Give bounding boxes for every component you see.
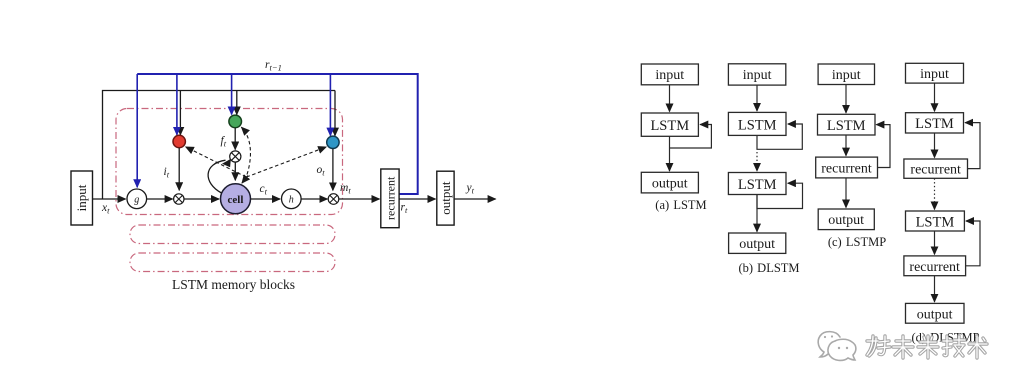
wire blue drop to input gate — [176, 74, 178, 135]
wire blue drop to forget gate — [231, 74, 233, 115]
(c) wire LSTM to recurrent — [845, 135, 847, 156]
forget multiplier — [230, 151, 241, 162]
svg-text:output: output — [828, 213, 864, 228]
wire blue drop to output gate — [329, 74, 331, 136]
svg-text:(b) DLSTM: (b) DLSTM — [738, 261, 799, 275]
(c) wire recurrent to output — [845, 178, 847, 208]
wire riser x_t (black vertical left) — [103, 91, 336, 200]
svg-text:xt: xt — [101, 202, 110, 216]
wire forget gate to forget multiplier — [234, 128, 236, 150]
svg-text:recurrent: recurrent — [909, 260, 960, 275]
(b) dotted wire LSTM1 to LSTM2 — [756, 152, 758, 171]
svg-text:mt: mt — [340, 182, 351, 196]
svg-text:cell: cell — [228, 194, 244, 206]
svg-text:(a) LSTM: (a) LSTM — [655, 198, 706, 212]
svg-text:LSTM: LSTM — [738, 117, 777, 133]
(c) input box — [818, 64, 874, 85]
(c) LSTM box — [818, 114, 876, 135]
svg-text:input: input — [74, 184, 89, 211]
svg-text:ot: ot — [317, 164, 326, 178]
watermark logo (chat bubbles) — [818, 332, 856, 361]
svg-text:input: input — [832, 68, 861, 83]
wire multiplier to recurrent — [339, 198, 380, 200]
svg-text:rt−1: rt−1 — [265, 59, 282, 73]
svg-text:recurrent: recurrent — [910, 163, 961, 178]
wire black drop to forget gate — [236, 91, 238, 115]
svg-text:ft: ft — [221, 135, 227, 149]
svg-text:rt: rt — [401, 202, 408, 216]
svg-text:input: input — [655, 68, 684, 83]
svg-text:(c) LSTMP: (c) LSTMP — [828, 235, 886, 249]
wire h to output multiplier — [301, 198, 327, 200]
peephole dashed curve to forget gate — [242, 127, 251, 174]
(b) output box — [729, 233, 786, 253]
(d) recurrent loop wire 1 — [965, 123, 980, 169]
(b) LSTM box 1 — [728, 112, 786, 135]
input box — [71, 171, 93, 225]
wire g to input-gate multiplier — [147, 198, 173, 200]
output box — [437, 171, 454, 225]
(b) recurrent loop wire 2 — [757, 183, 803, 208]
(b) recurrent loop wire 1 — [757, 124, 802, 149]
svg-text:input: input — [743, 68, 772, 83]
wire black drop to output gate — [334, 91, 336, 136]
wire cell self-loop arc to forget multiplier — [208, 160, 225, 193]
(d) LSTM box 2 — [906, 211, 965, 231]
output multiplier — [328, 194, 339, 205]
svg-text:h: h — [289, 195, 294, 206]
wire recurrent to output box — [399, 198, 435, 200]
peephole dashed to output gate — [247, 147, 327, 177]
svg-text:input: input — [920, 67, 949, 82]
peephole dashed to input gate — [186, 147, 246, 177]
svg-text:recurrent: recurrent — [821, 162, 872, 177]
wire cell to h — [251, 198, 281, 200]
svg-text:g: g — [134, 195, 139, 206]
(d) output box — [906, 303, 965, 323]
svg-text:LSTM: LSTM — [916, 214, 955, 230]
(c) recurrent loop wire — [876, 125, 890, 168]
multiplier (input gate) — [174, 194, 184, 204]
wire output gate to output multiplier — [332, 149, 334, 191]
(d) LSTM box 1 — [906, 113, 964, 133]
(a) wire LSTM to output — [669, 136, 671, 171]
wire blue recurrent r_t loop — [137, 74, 418, 194]
(d) input box — [906, 63, 964, 83]
(b) wire input to LSTM 1 — [756, 85, 758, 111]
svg-text:output: output — [917, 307, 953, 322]
(d) recurrent box 2 — [904, 256, 966, 276]
peephole dashed cell stub — [242, 176, 248, 184]
svg-text:yt: yt — [466, 182, 475, 196]
wire black drop to input gate — [179, 91, 181, 135]
(c) wire input to LSTM — [845, 85, 847, 113]
watermark text 好未来技术 — [867, 336, 987, 358]
(d) wire recurrent2 to output — [934, 276, 936, 302]
node g (input activation) — [127, 189, 147, 209]
recurrent box — [381, 169, 399, 228]
svg-text:LSTM: LSTM — [915, 116, 954, 132]
(a) recurrent loop wire — [670, 125, 712, 149]
(d) recurrent box 1 — [904, 159, 968, 178]
wire forget multiplier to cell — [234, 162, 236, 180]
node h (output activation) — [282, 189, 302, 209]
forget gate circle (green) — [229, 115, 242, 128]
(d) wire input to LSTM 1 — [934, 83, 936, 111]
(a) LSTM box — [641, 113, 698, 136]
(d) wire LSTM2 to recurrent 2 — [934, 231, 936, 254]
(a) output box — [641, 172, 698, 193]
cell — [221, 184, 251, 214]
wire input gate to multiplier — [178, 148, 180, 190]
(d) dotted wire recurrent1 to LSTM2 — [934, 178, 936, 209]
wire multiplier to cell — [184, 198, 219, 200]
(c) recurrent box — [816, 157, 878, 178]
svg-text:output: output — [652, 177, 688, 192]
svg-text:LSTM memory blocks: LSTM memory blocks — [172, 277, 295, 292]
svg-text:it: it — [164, 166, 170, 180]
(b) LSTM box 2 — [728, 173, 786, 195]
svg-text:LSTM: LSTM — [650, 118, 689, 134]
output gate circle (blue) — [327, 136, 339, 148]
memory block strip 2 — [130, 253, 335, 272]
(d) recurrent loop wire 2 — [966, 221, 980, 266]
input gate circle (red) — [173, 135, 185, 147]
wire input to g — [93, 198, 126, 200]
(b) wire LSTM2 to output — [756, 195, 758, 232]
(b) input box — [728, 64, 785, 85]
svg-text:output: output — [438, 181, 453, 215]
(a) input box — [641, 64, 698, 85]
(a) wire input to LSTM — [669, 85, 671, 112]
wire output to end — [454, 198, 496, 200]
svg-text:LSTM: LSTM — [738, 177, 777, 193]
memory block frame (pink dash-dot) — [116, 109, 343, 215]
svg-text:recurrent: recurrent — [384, 176, 398, 220]
svg-text:ct: ct — [260, 183, 268, 197]
(c) output box — [818, 209, 874, 230]
memory block strip 1 — [130, 225, 335, 244]
wire blue drop to g — [136, 74, 138, 187]
svg-text:output: output — [739, 237, 775, 252]
svg-text:LSTM: LSTM — [827, 118, 866, 134]
(d) wire LSTM1 to recurrent 1 — [934, 133, 936, 158]
